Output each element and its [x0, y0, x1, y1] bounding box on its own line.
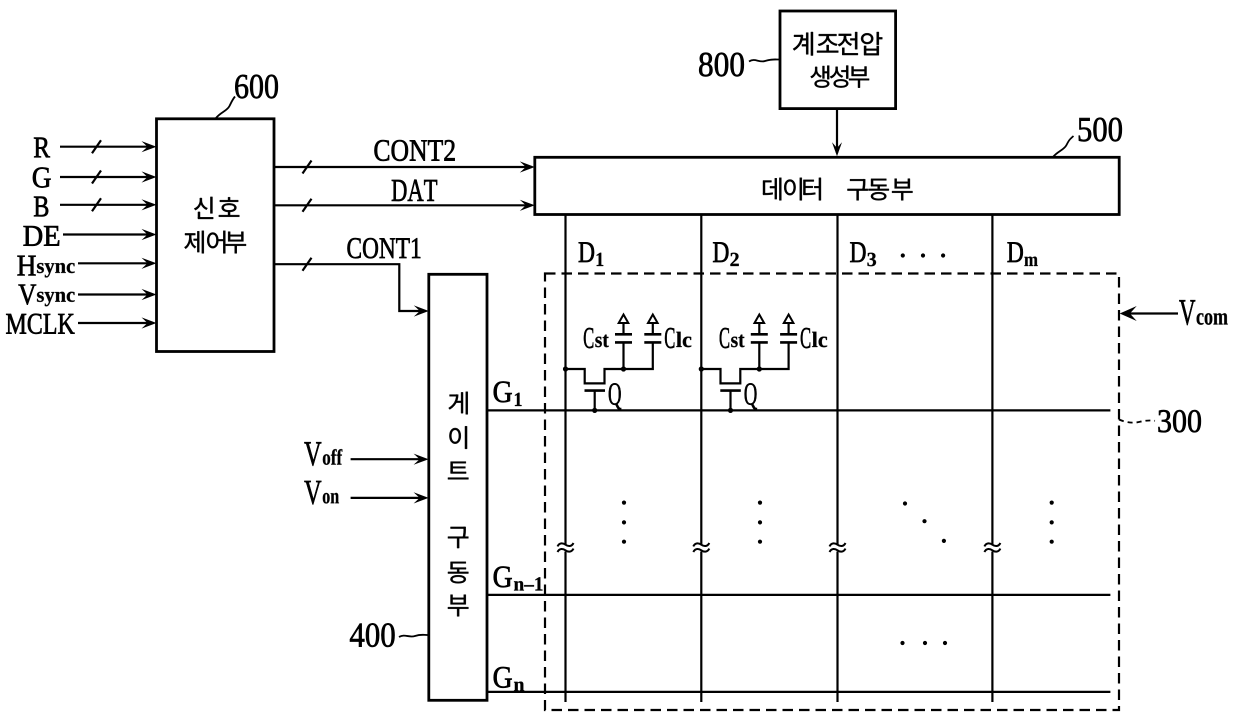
panel 300 dashed LCD panel outline: [545, 274, 1119, 711]
vertical ellipsis dots right of D2: [758, 501, 762, 544]
ref label 600: [235, 75, 278, 99]
break symbol on Dm: [984, 543, 1000, 552]
data line D3 (net): [836, 215, 838, 703]
label Gn: [494, 667, 524, 691]
wire input V to U600: [78, 293, 153, 295]
block U800 grayscale voltage generator box: [780, 11, 896, 109]
bus slash on DAT: [303, 199, 312, 212]
arrowhead Voff into U400: [414, 454, 429, 465]
data line D2 (net): [700, 215, 702, 703]
arrowhead DAT into U500: [520, 200, 535, 211]
node: junction dot on D1 at pixel source: [563, 366, 568, 371]
label CONT1: [347, 238, 420, 258]
capacitor Clc (pixel 2) plates: [780, 334, 797, 342]
label 신호 (signal) in U600: [194, 197, 239, 219]
wire gate lead Q1: [594, 391, 596, 411]
wire Vcom arrow: [1123, 312, 1178, 314]
bus slash on CONT2: [303, 161, 312, 174]
input label G: [33, 167, 51, 187]
label Dm: [1007, 242, 1037, 266]
bus slash on R input: [92, 140, 101, 153]
label 제어부 (controller) in U600: [184, 231, 246, 254]
label 게이트 구동부 (gate driver) vertical in U400: [448, 392, 469, 617]
transistor Q (pixel 2) gate bar: [720, 389, 741, 392]
wire gate lead Q2: [729, 391, 731, 411]
label Cst (pixel 1): [584, 328, 609, 348]
wire Cst1 top stem: [622, 323, 624, 335]
break symbol on D2: [693, 543, 709, 552]
common electrode arrow above Clc2: [784, 315, 794, 324]
wire CONT2 U600 to U500: [274, 166, 532, 168]
arrowhead MCLK into U600: [142, 317, 157, 328]
wire input B to U600: [60, 204, 153, 206]
block U600 signal controller box: [157, 119, 275, 352]
gate line Gn-1 (net): [487, 594, 1110, 596]
leader line for ref 800: [749, 59, 780, 61]
wire transistor Q2 source/drain path: [701, 343, 788, 383]
label Q (pixel 1): [609, 383, 621, 409]
arrowhead V into U600: [142, 289, 157, 300]
block U400 gate driver box: [429, 274, 487, 700]
label Clc (pixel 1): [665, 328, 691, 348]
wire input H to U600: [78, 262, 153, 264]
common electrode arrow above Clc1: [648, 315, 658, 324]
label D1: [579, 242, 604, 266]
wire input MCLK to U600: [78, 322, 153, 324]
wire Clc1 top stem: [652, 323, 654, 335]
wire CONT1 U600 to U400: [274, 264, 425, 311]
label Gn-1: [494, 566, 543, 590]
arrowhead H into U600: [142, 258, 157, 269]
label 생성부 (generator) in U800: [811, 66, 870, 88]
label Vcom: [1179, 300, 1227, 325]
ref label 400: [350, 623, 395, 647]
arrowhead B into U600: [142, 199, 157, 210]
wire input R to U600: [60, 146, 153, 148]
wire Cst2 top stem: [758, 323, 760, 335]
break symbol on D3: [830, 543, 846, 552]
label D2: [713, 242, 739, 266]
bus slash on G input: [92, 171, 101, 184]
bus slash on B input: [92, 198, 101, 211]
wire Cst1 bottom stem: [622, 343, 624, 369]
arrowhead Vcom into panel: [1120, 306, 1137, 321]
common electrode arrow above Cst1: [619, 315, 629, 324]
ref label 500: [1079, 118, 1122, 142]
arrowhead Von into U400: [414, 492, 429, 503]
data line Dm (net): [991, 215, 993, 703]
capacitor Clc (pixel 1) plates: [644, 334, 661, 342]
data line D1 (net): [564, 215, 566, 703]
label Cst (pixel 2): [720, 328, 745, 348]
label D3: [850, 242, 876, 266]
wire Cst2 bottom stem: [758, 343, 760, 369]
vertical ellipsis dots between D1 and D2: [622, 501, 626, 544]
label CONT2: [374, 140, 454, 161]
horizontal ellipsis dots between Gn-1 and Gn: [900, 641, 947, 645]
diagonal ellipsis dots between D3 and Dm: [903, 501, 946, 543]
arrowhead R into U600: [142, 141, 157, 152]
node: junction dot at Cst1 stem: [621, 366, 626, 371]
node: junction dot Q2 gate on G1: [728, 408, 733, 413]
leader line for ref 500: [1053, 136, 1074, 157]
wire U800 output to data driver: [836, 109, 838, 153]
capacitor Cst (pixel 2) plates: [751, 334, 768, 342]
ref label 800: [699, 53, 744, 77]
wire Clc2 top stem: [787, 323, 789, 335]
vertical ellipsis dots right of Dm: [1050, 501, 1054, 544]
input label B: [34, 197, 48, 217]
arrowhead into data driver top: [832, 142, 842, 156]
transistor Q (pixel 1) gate bar: [585, 389, 606, 392]
node: junction dot on D2 at pixel source: [699, 366, 704, 371]
gate line G1 (net): [487, 409, 1110, 411]
label Von: [304, 481, 339, 504]
label 계조전압 (gray voltage) in U800: [793, 32, 882, 56]
input label MCLK: [6, 314, 74, 334]
arrowhead CONT2 into U500: [520, 161, 535, 172]
capacitor Cst (pixel 1) plates: [615, 334, 632, 342]
block U500 data driver box: [535, 157, 1119, 214]
leader line for ref 600: [216, 97, 235, 119]
wire Voff to U400: [351, 458, 425, 460]
label 데이터 구동부 (data driver) in U500: [763, 178, 913, 201]
label Q (pixel 2): [745, 383, 757, 409]
break symbol on D1: [558, 543, 574, 552]
label G1: [494, 381, 522, 406]
wire input DE to U600: [63, 233, 153, 235]
leader line for ref 400: [399, 635, 429, 637]
label Clc (pixel 2): [801, 328, 827, 348]
ref label 300: [1158, 410, 1200, 432]
common electrode arrow above Cst2: [755, 315, 765, 324]
wire transistor Q1 source/drain path: [566, 343, 653, 383]
node: junction dot at Cst2 stem: [757, 366, 762, 371]
input label DE: [24, 226, 60, 246]
gate line Gn (net): [487, 691, 1110, 693]
arrowhead CONT1 into U400: [414, 305, 429, 316]
label DAT: [392, 180, 437, 201]
dashed leader line for ref 300: [1119, 420, 1155, 423]
input label Hsync: [17, 256, 74, 278]
label Voff: [304, 442, 342, 465]
node: junction dot Q1 gate on G1: [592, 408, 597, 413]
arrowhead DE into U600: [142, 229, 157, 240]
wire Von to U400: [351, 497, 425, 499]
wire input G to U600: [60, 176, 153, 178]
input label R: [34, 138, 50, 158]
bus slash on CONT1: [303, 258, 312, 271]
arrowhead G into U600: [142, 171, 157, 182]
wire DAT U600 to U500: [274, 204, 532, 206]
input label Vsync: [18, 285, 74, 307]
horizontal ellipsis dots next to D3 label: [901, 253, 946, 257]
